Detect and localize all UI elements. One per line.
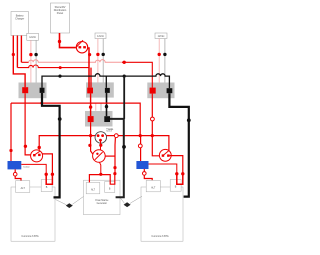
- ammeter M1: [93, 150, 106, 163]
- generator feed horizontal: [89, 173, 114, 184]
- red dot at R1 black crossing: [40, 102, 43, 105]
- bus A drop wire into relay R2: [90, 68, 92, 88]
- S1 feed dot: [38, 146, 41, 149]
- engine 2 box: [141, 187, 183, 241]
- generator box: [84, 180, 121, 215]
- bus A (lower red bus) with hops: [17, 65, 89, 68]
- isolator2 output dot: [175, 172, 178, 175]
- coil wire pink from B1: [30, 40, 32, 82]
- relay R4 black terminal: [104, 116, 110, 122]
- generator B feed from mid bus ring: [114, 138, 116, 174]
- mid bus junction dot 2: [151, 134, 154, 137]
- isolator 2 (blue): [136, 161, 148, 169]
- isolator 2 feed from mid bus: [140, 136, 142, 161]
- isolator1 right output to engine1 B: [21, 164, 46, 174]
- battery switch S3: [159, 149, 171, 161]
- coil wire pink from B2: [97, 39, 99, 83]
- isolator1 output dot: [45, 173, 48, 176]
- trunk2 upper segment from black bus: [123, 76, 125, 119]
- svg-text:Cummins 6 BTA: Cummins 6 BTA: [151, 235, 169, 238]
- relay R3 body: [147, 83, 174, 99]
- junction dot shore on busA: [59, 66, 62, 69]
- relay R1 red output down: [25, 93, 31, 155]
- black bus junction dot 2: [123, 75, 126, 78]
- svg-text:ALT: ALT: [21, 187, 26, 190]
- isolator 1 (blue): [8, 161, 22, 169]
- shore power distribution panel: [51, 3, 70, 33]
- engine 1 box: [11, 187, 55, 241]
- generator ALT box: [86, 182, 100, 193]
- black dot at red bus crossing: [105, 105, 108, 108]
- coil wire gray from B3: [164, 39, 166, 83]
- relay R2 red terminal: [87, 88, 93, 94]
- black bus junction dot 1: [58, 75, 61, 78]
- isolator1 feed dot: [9, 149, 12, 152]
- relay R4 gray output to generator trunk2: [110, 119, 124, 197]
- black bus: [42, 74, 169, 89]
- bus B (upper red bus) with hops: [21, 61, 28, 63]
- ring connector isolator2 feed: [138, 144, 142, 148]
- breaker box B2: [95, 33, 106, 39]
- relay R1 black terminal: [40, 88, 45, 93]
- jumper into switch S1 right: [38, 148, 40, 154]
- isolator2 bottom output to engine2 ALT: [144, 169, 152, 180]
- battery charger box: [11, 12, 28, 36]
- charger output wire 3 (bus B feed): [20, 36, 22, 63]
- parallel switch bottom to ammeter: [100, 140, 102, 150]
- shore panel drop wire: [60, 33, 76, 48]
- junction dot shore drop: [58, 40, 61, 43]
- engine1 B feed dot: [51, 173, 54, 176]
- charger output wire 1: [13, 36, 25, 88]
- junction dot bus B: [123, 61, 126, 64]
- relay R4 red terminal: [88, 116, 94, 122]
- terminal dot B3 black: [163, 53, 166, 56]
- R1 output end dot: [24, 145, 27, 148]
- breaker box B3: [155, 33, 167, 39]
- junction dot circle output: [88, 53, 91, 56]
- svg-text:12Vdc: 12Vdc: [29, 36, 37, 39]
- relay R1 red terminal: [22, 87, 28, 93]
- ammeter left terminal dot: [88, 144, 91, 147]
- coil wire pink from B3: [158, 39, 160, 83]
- relay R1 black output to trunk1: [42, 93, 60, 197]
- relay R4 red line down to ammeter: [91, 122, 93, 154]
- ammeter bottom output: [99, 162, 100, 174]
- terminal dot B2 red: [96, 53, 99, 56]
- relay R2 black terminal: [105, 88, 110, 93]
- terminal dot B2 black: [102, 53, 105, 56]
- engine1 B+ terminal: [46, 174, 52, 184]
- relay R1 body: [19, 83, 47, 99]
- ammeter right output: [105, 155, 115, 157]
- coil wire pink relay R4: [95, 103, 97, 111]
- red bus mid (y103): [11, 103, 140, 136]
- svg-text:12Vdc: 12Vdc: [158, 35, 166, 38]
- mid bus junction dot 1: [139, 134, 142, 137]
- mid red bus right of switch S2: [106, 136, 168, 155]
- engine1 starter box: [41, 180, 52, 192]
- engine2 starter box: [170, 180, 181, 192]
- isolator2 right output to engine2 B: [149, 164, 177, 174]
- shore inlet circle: [76, 40, 87, 53]
- switch S3 output to engine2 B terminal: [170, 156, 183, 174]
- engine2 B+ terminal: [177, 174, 183, 184]
- svg-text:Switch: Switch: [106, 130, 112, 133]
- coil wire gray from B2: [102, 39, 104, 83]
- svg-text:ALT: ALT: [91, 188, 96, 191]
- charger output wire 2 (bus A feed): [16, 36, 18, 68]
- ring connector on mid bus: [114, 134, 118, 138]
- trunk3 connector dot: [187, 118, 191, 122]
- relay R3 black terminal: [167, 88, 173, 93]
- svg-text:12Vdc: 12Vdc: [97, 35, 105, 38]
- battery switch S1: [31, 150, 43, 162]
- relay R3 red terminal: [150, 88, 156, 94]
- svg-text:Generator: Generator: [97, 202, 108, 205]
- coil wire gray relay R4: [100, 103, 102, 111]
- relay R3 red output down: [152, 94, 161, 156]
- ammeter top feed dot: [99, 144, 102, 147]
- engine1 ALT box: [16, 181, 30, 193]
- left feeder wire to isolator 1: [10, 103, 12, 161]
- bonding diamond 2: [120, 196, 142, 207]
- gen B feed dot 1: [113, 166, 116, 169]
- engine2 B feed dot: [181, 172, 184, 175]
- parallel switch S2: [95, 132, 107, 144]
- bonding diamond 1: [56, 197, 84, 209]
- trunk1 connector dot: [58, 117, 62, 121]
- svg-text:Charger: Charger: [15, 17, 24, 20]
- junction dot R4 line on mid bus: [89, 134, 92, 137]
- relay R2 body: [86, 82, 114, 97]
- shore inlet output wire to relay R2: [87, 48, 89, 88]
- switch S1 output to engine1 B terminal: [42, 154, 52, 174]
- terminal dot B1 black: [34, 53, 37, 56]
- trunk2 connector dot: [122, 145, 126, 149]
- terminal dot B1 red: [29, 53, 32, 56]
- mid red bus (y134) left segment to switch S1: [39, 136, 95, 147]
- isolator1 bottom output to engine1 ALT: [15, 169, 21, 180]
- relay R2 black output down to relay R4: [106, 93, 108, 116]
- isolator1 bottom ring: [13, 172, 17, 176]
- generator B box: [105, 182, 115, 193]
- svg-text:ALT: ALT: [151, 187, 156, 190]
- red dot at R2 line crossing: [89, 105, 92, 108]
- engine2 ALT box: [146, 180, 160, 191]
- junction dot charger wire1: [12, 53, 15, 56]
- svg-text:Onan Marine: Onan Marine: [95, 199, 109, 202]
- svg-text:Isolator: Isolator: [23, 166, 30, 169]
- relay R2 red output down to relay R4: [90, 93, 92, 116]
- relay R4 body (generator): [85, 111, 113, 127]
- ring connector on R3 output: [151, 117, 155, 121]
- relay R3 black output to trunk3: [169, 93, 188, 196]
- svg-text:Panel: Panel: [57, 12, 64, 15]
- svg-text:Cummins 6 BTA: Cummins 6 BTA: [21, 235, 39, 238]
- gen B feed dot 2: [113, 172, 116, 175]
- breaker box B1: [27, 33, 39, 40]
- ring connector isolator2 bottom: [143, 172, 147, 176]
- coil wire gray from B1: [35, 40, 37, 82]
- generator feed dot: [99, 173, 102, 176]
- terminal dot B3 red: [158, 53, 161, 56]
